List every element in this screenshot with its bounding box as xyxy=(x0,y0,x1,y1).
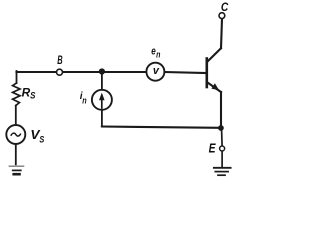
svg-text:n: n xyxy=(82,96,87,106)
svg-text:n: n xyxy=(156,49,161,59)
svg-text:C: C xyxy=(221,0,229,14)
svg-text:e: e xyxy=(151,45,156,57)
svg-text:S: S xyxy=(39,135,44,146)
svg-text:B: B xyxy=(57,53,63,67)
svg-text:S: S xyxy=(30,91,35,101)
svg-text:E: E xyxy=(209,140,216,155)
svg-text:v: v xyxy=(153,65,160,77)
